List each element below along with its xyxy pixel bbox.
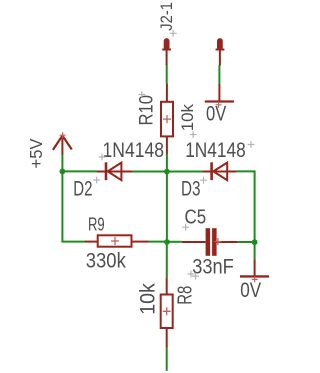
resistor R8 <box>161 277 173 347</box>
svg-text:1N4148: 1N4148 <box>103 139 165 162</box>
label 0V top <box>206 103 226 126</box>
origin cross D2 label <box>93 177 100 184</box>
label D2 <box>73 177 92 200</box>
svg-text:33nF: 33nF <box>192 255 234 278</box>
label 1N4148 of D3 <box>185 139 246 162</box>
supply 0V top <box>205 84 234 108</box>
label D3 <box>181 177 201 200</box>
wire R9 right to center junction <box>148 241 167 243</box>
supply 0V bottom <box>240 259 269 282</box>
connector pin J2-1 <box>162 41 171 65</box>
origin cross D3 label <box>200 177 207 184</box>
wire C5 right to right junction <box>238 241 255 243</box>
resistor R10 <box>161 83 173 154</box>
wire J2-1 pin to R10 <box>166 65 168 84</box>
origin cross R8 label <box>192 273 199 280</box>
junction dot C5 row center <box>164 239 170 245</box>
origin cross R10 label <box>138 91 145 98</box>
label 1N4148 of D2 <box>103 139 165 162</box>
svg-text:10k: 10k <box>137 283 160 315</box>
wire center junction to C5 <box>167 241 182 243</box>
wire 0V pin segment (top right) <box>218 65 220 84</box>
wire D2 to center junction <box>132 171 168 173</box>
label 33nF <box>192 255 234 278</box>
svg-text:10k: 10k <box>178 104 197 132</box>
svg-text:D2: D2 <box>73 177 92 200</box>
wire below R8 to bottom <box>166 348 168 371</box>
diode D3 <box>203 162 237 180</box>
capacitor C5 <box>182 228 238 256</box>
svg-text:+5V: +5V <box>26 138 46 168</box>
wire R10 bottom to center junction down to C5 row <box>166 154 168 242</box>
label R8 <box>174 286 196 305</box>
wire C5 row junction down toward R8 <box>166 242 168 278</box>
origin cross C5 label <box>182 224 189 231</box>
svg-text:D3: D3 <box>181 177 201 200</box>
wire center junction to D3 <box>167 171 203 173</box>
wire +5V node to D2 <box>62 170 97 172</box>
origin cross J2-1 label <box>170 30 177 37</box>
origin cross 1N4148 right <box>248 141 255 148</box>
label J2-1 <box>157 2 176 31</box>
label 330k <box>86 249 126 272</box>
svg-text:R10: R10 <box>137 95 158 126</box>
resistor R9 <box>85 235 149 246</box>
svg-text:C5: C5 <box>185 207 207 229</box>
diode D2 <box>97 162 132 180</box>
label 10k of R10 <box>178 104 197 132</box>
junction dot center (diode row) <box>164 169 170 175</box>
label R10 <box>137 95 158 126</box>
label R9 <box>88 214 105 235</box>
wire D3 to right corner, down to 0V <box>236 171 255 259</box>
svg-text:0V: 0V <box>240 279 261 302</box>
svg-text:R9: R9 <box>88 214 105 235</box>
supply +5V arrow <box>53 132 72 154</box>
junction dot at +5V node <box>60 169 66 175</box>
origin cross 33nF label <box>188 271 195 278</box>
wire left vertical from +5V down and across to R9 <box>62 154 85 242</box>
origin cross 1N4148 left <box>99 154 106 161</box>
origin cross 10k label <box>190 131 197 138</box>
label 10k of R8 <box>137 283 160 315</box>
junction dot C5 row right <box>252 239 258 245</box>
svg-text:R8: R8 <box>174 286 196 305</box>
svg-text:330k: 330k <box>86 249 126 272</box>
svg-text:J2-1: J2-1 <box>157 2 176 31</box>
label C5 <box>185 207 207 229</box>
connector pin (top right, to 0V) <box>216 41 225 66</box>
label 0V bottom <box>240 279 261 302</box>
svg-text:1N4148: 1N4148 <box>185 139 246 162</box>
svg-text:0V: 0V <box>206 103 226 126</box>
label +5V <box>26 138 46 168</box>
